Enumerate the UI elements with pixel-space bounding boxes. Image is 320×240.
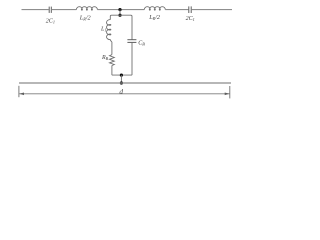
dimension tick left (18, 86, 20, 97)
dimension arrowhead left (19, 93, 24, 96)
node B junction dot on shunt sub-bar (118, 14, 121, 17)
capacitor CB plates (127, 40, 136, 43)
wire top-left segment (22, 9, 49, 11)
dimension line d (19, 93, 229, 95)
capacitor 2C1 (left) (49, 7, 51, 13)
wire between L1 and RB (111, 42, 113, 55)
svg-text:2C1: 2C1 (186, 16, 195, 22)
svg-text:2C1: 2C1 (46, 18, 55, 24)
junction dot on ground wire (120, 81, 123, 84)
junction dot on bottom bar (120, 74, 123, 77)
resistor RB (110, 55, 115, 66)
node A junction dot on top wire (118, 8, 121, 11)
capacitor 2C1 (right) (189, 6, 191, 13)
wire from right inductor to right capacitor (165, 9, 188, 11)
wire link node A down to node B (119, 10, 121, 16)
wire shunt sub-bar with corners down to branches (110, 15, 132, 39)
svg-text:LR/2: LR/2 (148, 14, 160, 21)
ground wire (bottom conductor) (19, 82, 231, 84)
inductor LR/2 (right) (144, 7, 165, 11)
svg-text:L1: L1 (100, 27, 106, 33)
svg-text:LR/2: LR/2 (79, 15, 91, 22)
wire from left inductor to node A (97, 9, 144, 11)
wire bottom bar of shunt network (112, 74, 132, 76)
svg-text:d: d (119, 88, 123, 96)
wire below CB to bottom bar (131, 43, 133, 76)
svg-text:RB: RB (101, 55, 109, 61)
svg-text:CB: CB (138, 41, 145, 47)
dimension tick right (229, 86, 231, 98)
dimension arrowhead right (225, 93, 230, 96)
wire top-right segment (192, 9, 232, 11)
inductor L1 (shunt) (107, 20, 112, 42)
wire between left capacitor and left inductor (52, 9, 77, 11)
inductor LR/2 (left) (76, 7, 97, 11)
wire below RB to bottom bar (111, 66, 113, 76)
wire link bottom bar to ground wire (120, 75, 122, 83)
